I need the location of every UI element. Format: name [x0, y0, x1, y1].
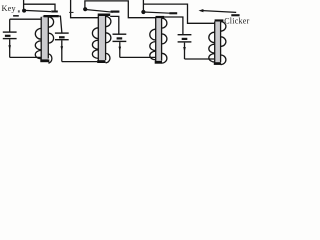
coil U1 winding right arcs [48, 17, 53, 63]
svg-text:Clicker: Clicker [224, 16, 249, 25]
armature lever stage4 [203, 11, 236, 13]
armature lever stage2 [86, 10, 114, 13]
battery B1 top lead [9, 19, 11, 32]
coil U3 winding right arcs [162, 18, 167, 63]
wire key base to coil U1 [10, 16, 46, 19]
wire riser stage1 [23, 0, 25, 11]
armature arrow stage4 [199, 9, 204, 12]
bottom wire stage3 [120, 56, 156, 58]
coil U2 winding right arcs [106, 16, 111, 62]
wire top stage2 to stage3 feed [85, 1, 156, 18]
coil U3 top cap [156, 16, 165, 18]
key contact stud [13, 15, 19, 17]
battery B4 bottom lead [184, 43, 186, 59]
armature lever stage1 [25, 10, 52, 11]
bottom wire stage4 [185, 58, 215, 60]
coil U4 top cap [215, 19, 224, 21]
armature lever stage3 [143, 12, 170, 13]
battery B1 bottom lead [9, 39, 11, 57]
coil U4 bottom cap [214, 62, 221, 65]
relay coil U4 core [215, 21, 220, 62]
coil U4 side wires [214, 22, 216, 63]
coil U1 top cap [44, 15, 59, 17]
coil U3 side wires [155, 18, 157, 61]
contact dash stage4 [231, 14, 239, 16]
coil U1 winding left arcs [35, 28, 41, 58]
contact dash stage3 [169, 12, 177, 14]
battery B1 [3, 32, 17, 39]
current arrow stage4 [183, 47, 186, 52]
battery B2 [55, 33, 69, 40]
wire top stage3 to stage4 feed [143, 4, 215, 23]
jog tick on stage2 feed riser [69, 12, 73, 13]
junction dot stage2 [83, 7, 87, 11]
svg-text:Key: Key [2, 4, 17, 13]
battery B4 [178, 35, 192, 42]
background [0, 0, 250, 66]
link coil U1 cap to battery B2 [59, 16, 62, 33]
relay coil U1 core [42, 17, 48, 61]
relay coil U3 core [156, 18, 161, 61]
battery B2 bottom lead [61, 40, 63, 61]
feed riser stage2 [71, 0, 99, 18]
battery B3 bottom lead [119, 42, 121, 57]
link coil U2 cap to battery B3 [110, 16, 119, 34]
contact dash stage2 [111, 11, 120, 13]
wire top stage1 [24, 4, 55, 10]
coil U4 winding left arcs [209, 32, 215, 62]
wire riser stage3 [142, 0, 144, 12]
key knob speck [18, 10, 20, 12]
coil U2 winding left arcs [92, 28, 98, 59]
current arrow stage1 [8, 45, 11, 50]
junction dot stage3 [141, 10, 145, 14]
bottom wire stage1 [10, 56, 42, 58]
relay coil U2 core [99, 16, 106, 61]
link coil U3 cap to battery B4 [164, 17, 183, 35]
coil U3 bottom cap [155, 61, 162, 64]
junction dot stage1 [22, 9, 26, 13]
coil U2 top cap [98, 14, 111, 17]
bottom wire stage2 [62, 61, 98, 63]
current arrow stage2 [61, 46, 64, 51]
coil U3 winding left arcs [150, 29, 156, 60]
battery B3 [113, 34, 127, 41]
current arrow stage3 [119, 47, 122, 52]
coil U1 bottom cap [40, 59, 49, 62]
coil U1 side wires [40, 17, 42, 61]
coil U2 side wires [97, 16, 99, 61]
contact dash stage1 [51, 11, 58, 13]
coil U2 bottom cap [97, 60, 105, 63]
coil U4 winding right arcs [221, 22, 226, 65]
